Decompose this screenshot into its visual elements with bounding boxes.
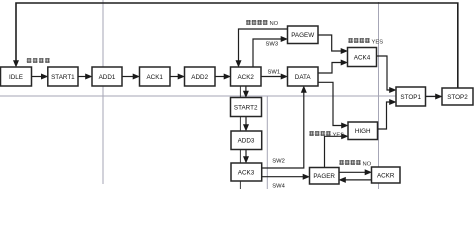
svg-text:SW2: SW2	[272, 158, 285, 164]
svg-text:ADD3: ADD3	[238, 138, 255, 145]
svg-text:SW3: SW3	[266, 42, 279, 48]
svg-text:HIGH: HIGH	[355, 128, 371, 135]
svg-text:ACK2: ACK2	[237, 74, 254, 81]
svg-text:YES: YES	[372, 39, 384, 45]
svg-text:START2: START2	[234, 105, 258, 112]
svg-text:START1: START1	[51, 74, 75, 81]
svg-text:NO: NO	[270, 21, 279, 27]
svg-text:DATA: DATA	[295, 74, 312, 81]
svg-text:SW4: SW4	[272, 184, 285, 189]
svg-text:PAGER: PAGER	[313, 173, 335, 180]
svg-text:YES: YES	[333, 132, 345, 138]
svg-text:NO: NO	[363, 161, 372, 167]
svg-text:STOP2: STOP2	[447, 94, 468, 101]
svg-text:ADD2: ADD2	[191, 74, 208, 81]
svg-text:PAGEW: PAGEW	[291, 32, 314, 39]
svg-text:SW1: SW1	[268, 70, 281, 76]
svg-text:ACK3: ACK3	[238, 170, 255, 177]
svg-text:IDLE: IDLE	[9, 74, 23, 81]
svg-text:ACK4: ACK4	[354, 55, 371, 62]
svg-text:ADD1: ADD1	[99, 74, 116, 81]
svg-text:STOP1: STOP1	[400, 94, 421, 101]
svg-text:ACK1: ACK1	[146, 74, 163, 81]
svg-text:ACKR: ACKR	[377, 173, 395, 180]
